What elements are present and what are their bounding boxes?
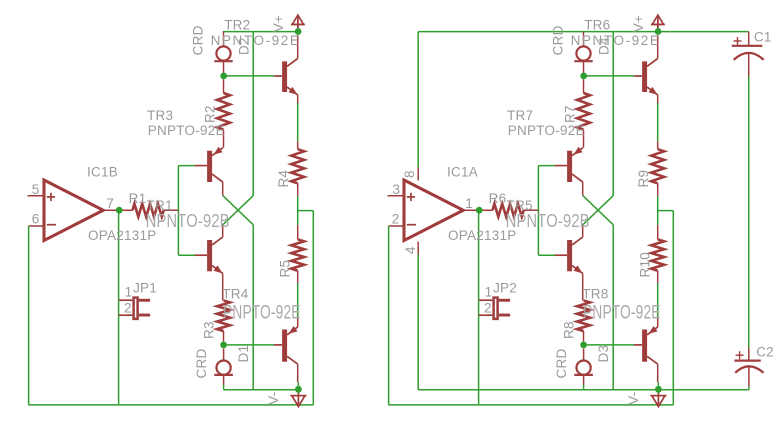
svg-text:PNPTO-92E: PNPTO-92E (583, 303, 661, 324)
svg-text:R10: R10 (637, 252, 652, 278)
svg-text:TR2: TR2 (224, 18, 250, 33)
svg-text:V+: V+ (271, 15, 286, 32)
svg-text:2: 2 (484, 300, 492, 315)
svg-text:V+: V+ (631, 15, 646, 32)
svg-text:7: 7 (106, 196, 114, 211)
svg-text:CRD: CRD (191, 25, 206, 55)
svg-text:IC1A: IC1A (447, 165, 478, 180)
svg-text:R8: R8 (562, 321, 577, 339)
svg-text:R1: R1 (129, 191, 147, 206)
svg-text:PNPTO-92E: PNPTO-92E (148, 123, 225, 138)
svg-text:V-: V- (626, 392, 641, 405)
svg-text:TR6: TR6 (584, 18, 610, 33)
svg-text:D2: D2 (237, 37, 252, 55)
svg-text:D3: D3 (596, 345, 611, 363)
svg-text:D1: D1 (236, 345, 251, 363)
svg-text:NPNTO-92B: NPNTO-92B (506, 210, 590, 231)
svg-text:8: 8 (402, 170, 417, 178)
svg-text:CRD: CRD (194, 349, 209, 379)
svg-text:JP2: JP2 (493, 281, 517, 296)
svg-text:1: 1 (465, 196, 473, 211)
svg-text:R4: R4 (276, 170, 291, 188)
svg-text:TR4: TR4 (222, 287, 248, 302)
svg-text:TR3: TR3 (147, 108, 173, 123)
svg-text:V-: V- (266, 392, 281, 405)
svg-text:1: 1 (485, 285, 493, 300)
svg-text:R3: R3 (202, 321, 217, 339)
svg-text:CRD: CRD (554, 349, 569, 379)
svg-text:PNPTO-92E: PNPTO-92E (223, 303, 301, 324)
svg-text:NPNTO-92E: NPNTO-92E (571, 33, 661, 48)
svg-text:2: 2 (124, 300, 132, 315)
svg-text:5: 5 (32, 182, 40, 197)
svg-text:PNPTO-92E: PNPTO-92E (508, 123, 585, 138)
svg-text:2: 2 (392, 212, 400, 227)
svg-text:NPNTO-92B: NPNTO-92B (146, 210, 230, 231)
svg-text:TR7: TR7 (507, 108, 533, 123)
svg-text:C1: C1 (754, 30, 772, 45)
svg-text:CRD: CRD (551, 25, 566, 55)
svg-text:TR8: TR8 (582, 287, 608, 302)
svg-text:4: 4 (403, 246, 418, 254)
svg-text:IC1B: IC1B (87, 165, 118, 180)
svg-text:R6: R6 (489, 191, 507, 206)
svg-text:NPNTO-92E: NPNTO-92E (211, 33, 301, 48)
svg-text:D4: D4 (597, 37, 612, 55)
svg-text:1: 1 (125, 285, 133, 300)
svg-text:R7: R7 (563, 105, 578, 123)
svg-text:3: 3 (393, 182, 401, 197)
svg-text:R2: R2 (203, 105, 218, 123)
svg-text:R9: R9 (636, 170, 651, 188)
svg-text:R5: R5 (277, 260, 292, 278)
svg-text:6: 6 (32, 212, 40, 227)
svg-text:JP1: JP1 (133, 281, 157, 296)
svg-text:C2: C2 (756, 345, 774, 360)
